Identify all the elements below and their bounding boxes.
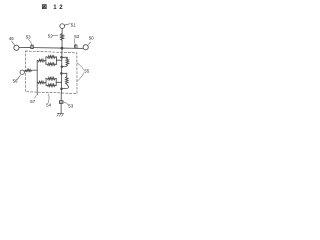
- svg-text:50: 50: [89, 36, 94, 41]
- svg-text:56: 56: [13, 78, 18, 83]
- svg-text:54: 54: [46, 103, 51, 108]
- svg-text:57: 57: [30, 99, 35, 104]
- svg-text:55: 55: [84, 68, 89, 73]
- svg-text:51: 51: [71, 23, 76, 28]
- svg-text:53: 53: [26, 35, 31, 40]
- svg-text:46: 46: [9, 36, 14, 41]
- svg-text:53: 53: [68, 103, 73, 108]
- svg-text:53: 53: [74, 34, 79, 39]
- svg-text:52: 52: [48, 34, 53, 39]
